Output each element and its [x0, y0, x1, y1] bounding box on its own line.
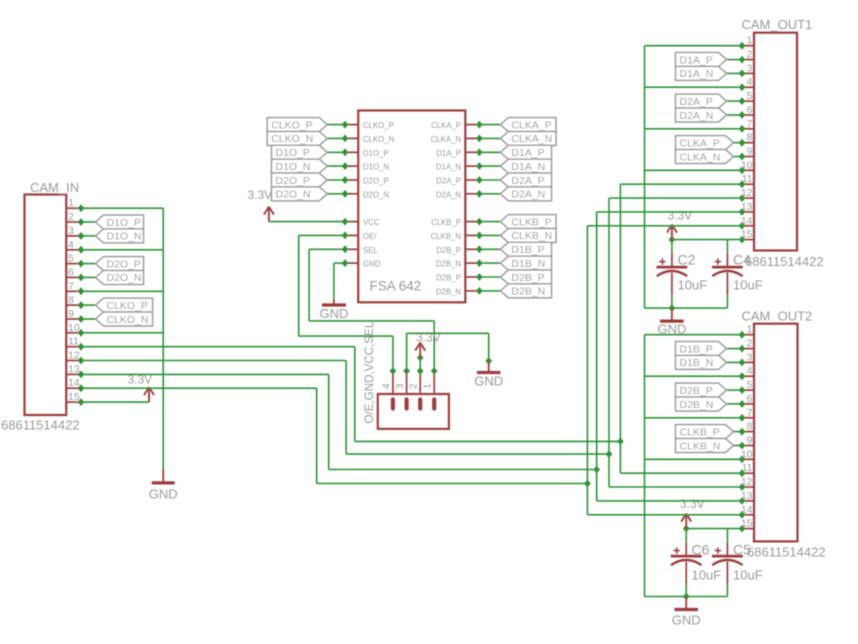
- svg-text:D2O_P: D2O_P: [276, 175, 310, 187]
- svg-text:D1A_P: D1A_P: [511, 147, 544, 159]
- svg-text:68611514422: 68611514422: [745, 254, 824, 269]
- svg-text:3.3V: 3.3V: [248, 188, 273, 202]
- svg-text:CAM_IN: CAM_IN: [30, 180, 79, 195]
- svg-text:CAM_OUT1: CAM_OUT1: [742, 17, 813, 32]
- svg-text:CLKB_N: CLKB_N: [680, 440, 721, 452]
- svg-text:D2B_N: D2B_N: [680, 399, 714, 411]
- svg-text:CLKA_P: CLKA_P: [511, 119, 551, 131]
- svg-text:VCC: VCC: [363, 218, 380, 227]
- svg-text:5: 5: [747, 379, 753, 391]
- svg-text:3: 3: [68, 225, 74, 237]
- svg-text:CLKB_P: CLKB_P: [431, 218, 461, 227]
- svg-text:D1O_P: D1O_P: [276, 147, 310, 159]
- svg-text:CLKO_N: CLKO_N: [107, 314, 149, 326]
- svg-text:D2O_N: D2O_N: [276, 189, 311, 201]
- svg-text:D1O_N: D1O_N: [107, 231, 142, 243]
- svg-text:D1B_P: D1B_P: [511, 244, 544, 256]
- svg-text:11: 11: [742, 173, 753, 185]
- svg-text:13: 13: [741, 201, 753, 213]
- svg-text:9: 9: [747, 435, 753, 447]
- svg-text:13: 13: [68, 363, 80, 375]
- svg-text:D2A_P: D2A_P: [511, 175, 544, 187]
- svg-text:7: 7: [747, 118, 753, 130]
- svg-text:CLKA_N: CLKA_N: [511, 133, 552, 145]
- svg-text:CLKB_P: CLKB_P: [680, 426, 720, 438]
- svg-text:2: 2: [68, 211, 74, 223]
- svg-text:CLKO_P: CLKO_P: [107, 300, 148, 312]
- svg-text:10uF: 10uF: [733, 278, 763, 293]
- svg-text:8: 8: [68, 294, 74, 306]
- svg-text:GND: GND: [474, 374, 503, 389]
- svg-text:10uF: 10uF: [733, 568, 763, 583]
- svg-text:14: 14: [68, 377, 80, 389]
- svg-text:D1B_N: D1B_N: [680, 357, 714, 369]
- svg-text:7: 7: [68, 280, 74, 292]
- svg-text:10: 10: [68, 322, 80, 334]
- svg-text:D2O_P: D2O_P: [363, 177, 389, 186]
- svg-text:12: 12: [68, 350, 80, 362]
- svg-text:D1O_P: D1O_P: [363, 149, 389, 158]
- svg-text:2: 2: [747, 338, 753, 350]
- svg-text:CLKO_N: CLKO_N: [363, 135, 394, 144]
- svg-text:D1O_N: D1O_N: [363, 163, 389, 172]
- svg-text:14: 14: [741, 215, 753, 227]
- svg-text:SEL: SEL: [363, 246, 378, 255]
- svg-text:13: 13: [741, 490, 753, 502]
- svg-text:9: 9: [68, 308, 74, 320]
- svg-text:GND: GND: [672, 613, 701, 628]
- svg-text:D2A_P: D2A_P: [680, 96, 713, 108]
- svg-text:GND: GND: [363, 260, 381, 269]
- svg-text:D2B_P: D2B_P: [511, 272, 544, 284]
- svg-text:11: 11: [68, 336, 79, 348]
- svg-text:CLKO_P: CLKO_P: [363, 121, 394, 130]
- svg-text:10: 10: [741, 448, 753, 460]
- svg-text:D2A_P: D2A_P: [436, 177, 461, 186]
- svg-text:D2O_P: D2O_P: [107, 258, 141, 270]
- svg-text:12: 12: [741, 187, 753, 199]
- svg-text:15: 15: [741, 229, 753, 241]
- svg-text:C6: C6: [692, 542, 710, 558]
- svg-text:D2B_N: D2B_N: [436, 287, 461, 296]
- svg-text:D2B_N: D2B_N: [436, 260, 461, 269]
- svg-text:10: 10: [741, 159, 753, 171]
- svg-text:CLKB_N: CLKB_N: [511, 230, 552, 242]
- svg-text:D2B_P: D2B_P: [436, 246, 461, 255]
- svg-text:GND: GND: [149, 487, 178, 502]
- svg-text:2: 2: [409, 383, 420, 389]
- svg-text:4: 4: [747, 365, 753, 377]
- svg-text:D1B_P: D1B_P: [680, 343, 713, 355]
- svg-text:D1B_N: D1B_N: [511, 258, 545, 270]
- svg-text:D2A_N: D2A_N: [436, 190, 461, 199]
- svg-text:CLKO_P: CLKO_P: [271, 119, 312, 131]
- svg-text:C2: C2: [678, 252, 696, 268]
- svg-text:CLKA_N: CLKA_N: [680, 151, 721, 163]
- svg-text:6: 6: [68, 266, 74, 278]
- svg-text:4: 4: [68, 239, 74, 251]
- svg-text:3: 3: [747, 62, 753, 74]
- svg-text:5: 5: [747, 90, 753, 102]
- svg-text:CLKA_P: CLKA_P: [680, 138, 720, 150]
- svg-text:D1A_N: D1A_N: [680, 68, 714, 80]
- svg-text:3.3V: 3.3V: [680, 497, 705, 511]
- svg-text:D2B_P: D2B_P: [436, 274, 461, 283]
- svg-text:68611514422: 68611514422: [747, 545, 826, 560]
- svg-text:C4: C4: [733, 252, 751, 268]
- svg-text:D1O_N: D1O_N: [276, 161, 311, 173]
- svg-text:D2B_N: D2B_N: [511, 286, 545, 298]
- svg-text:1: 1: [747, 324, 753, 336]
- svg-text:D2A_N: D2A_N: [511, 189, 545, 201]
- svg-text:CLKB_P: CLKB_P: [511, 216, 551, 228]
- svg-text:GND: GND: [319, 306, 348, 321]
- svg-text:OE/: OE/: [363, 232, 377, 241]
- svg-text:D1A_N: D1A_N: [436, 163, 461, 172]
- svg-text:15: 15: [741, 518, 753, 530]
- svg-text:D2O_N: D2O_N: [363, 190, 389, 199]
- svg-text:11: 11: [742, 462, 753, 474]
- svg-text:D1O_P: D1O_P: [107, 217, 141, 229]
- svg-text:14: 14: [741, 504, 753, 516]
- svg-text:10uF: 10uF: [678, 278, 708, 293]
- svg-text:8: 8: [747, 132, 753, 144]
- svg-text:D2B_P: D2B_P: [680, 385, 713, 397]
- svg-text:1: 1: [68, 197, 74, 209]
- svg-text:4: 4: [747, 76, 753, 88]
- svg-text:7: 7: [747, 407, 753, 419]
- svg-text:CLKO_N: CLKO_N: [271, 133, 313, 145]
- svg-text:D1A_P: D1A_P: [436, 149, 461, 158]
- svg-text:CLKB_N: CLKB_N: [431, 232, 461, 241]
- svg-text:3: 3: [395, 383, 406, 389]
- svg-text:1: 1: [747, 35, 753, 47]
- svg-text:3.3V: 3.3V: [668, 209, 693, 223]
- svg-text:6: 6: [747, 104, 753, 116]
- svg-text:CLKA_P: CLKA_P: [431, 121, 461, 130]
- svg-text:8: 8: [747, 421, 753, 433]
- svg-text:15: 15: [68, 391, 80, 403]
- svg-text:5: 5: [68, 253, 74, 265]
- svg-text:D2O_N: D2O_N: [107, 272, 142, 284]
- svg-text:CAM_OUT2: CAM_OUT2: [742, 309, 813, 324]
- svg-text:D1A_N: D1A_N: [511, 161, 545, 173]
- svg-text:68611514422: 68611514422: [1, 418, 80, 433]
- svg-text:CLKA_N: CLKA_N: [431, 135, 461, 144]
- svg-text:2: 2: [747, 49, 753, 61]
- svg-text:3: 3: [747, 351, 753, 363]
- svg-text:10uF: 10uF: [692, 568, 722, 583]
- svg-text:9: 9: [747, 146, 753, 158]
- svg-text:C5: C5: [733, 542, 751, 558]
- svg-text:12: 12: [741, 476, 753, 488]
- svg-text:6: 6: [747, 393, 753, 405]
- svg-text:D1A_P: D1A_P: [680, 54, 713, 66]
- svg-text:FSA 642: FSA 642: [370, 279, 422, 294]
- svg-text:D2A_N: D2A_N: [680, 110, 714, 122]
- svg-text:1: 1: [423, 383, 434, 389]
- svg-text:4: 4: [381, 383, 392, 389]
